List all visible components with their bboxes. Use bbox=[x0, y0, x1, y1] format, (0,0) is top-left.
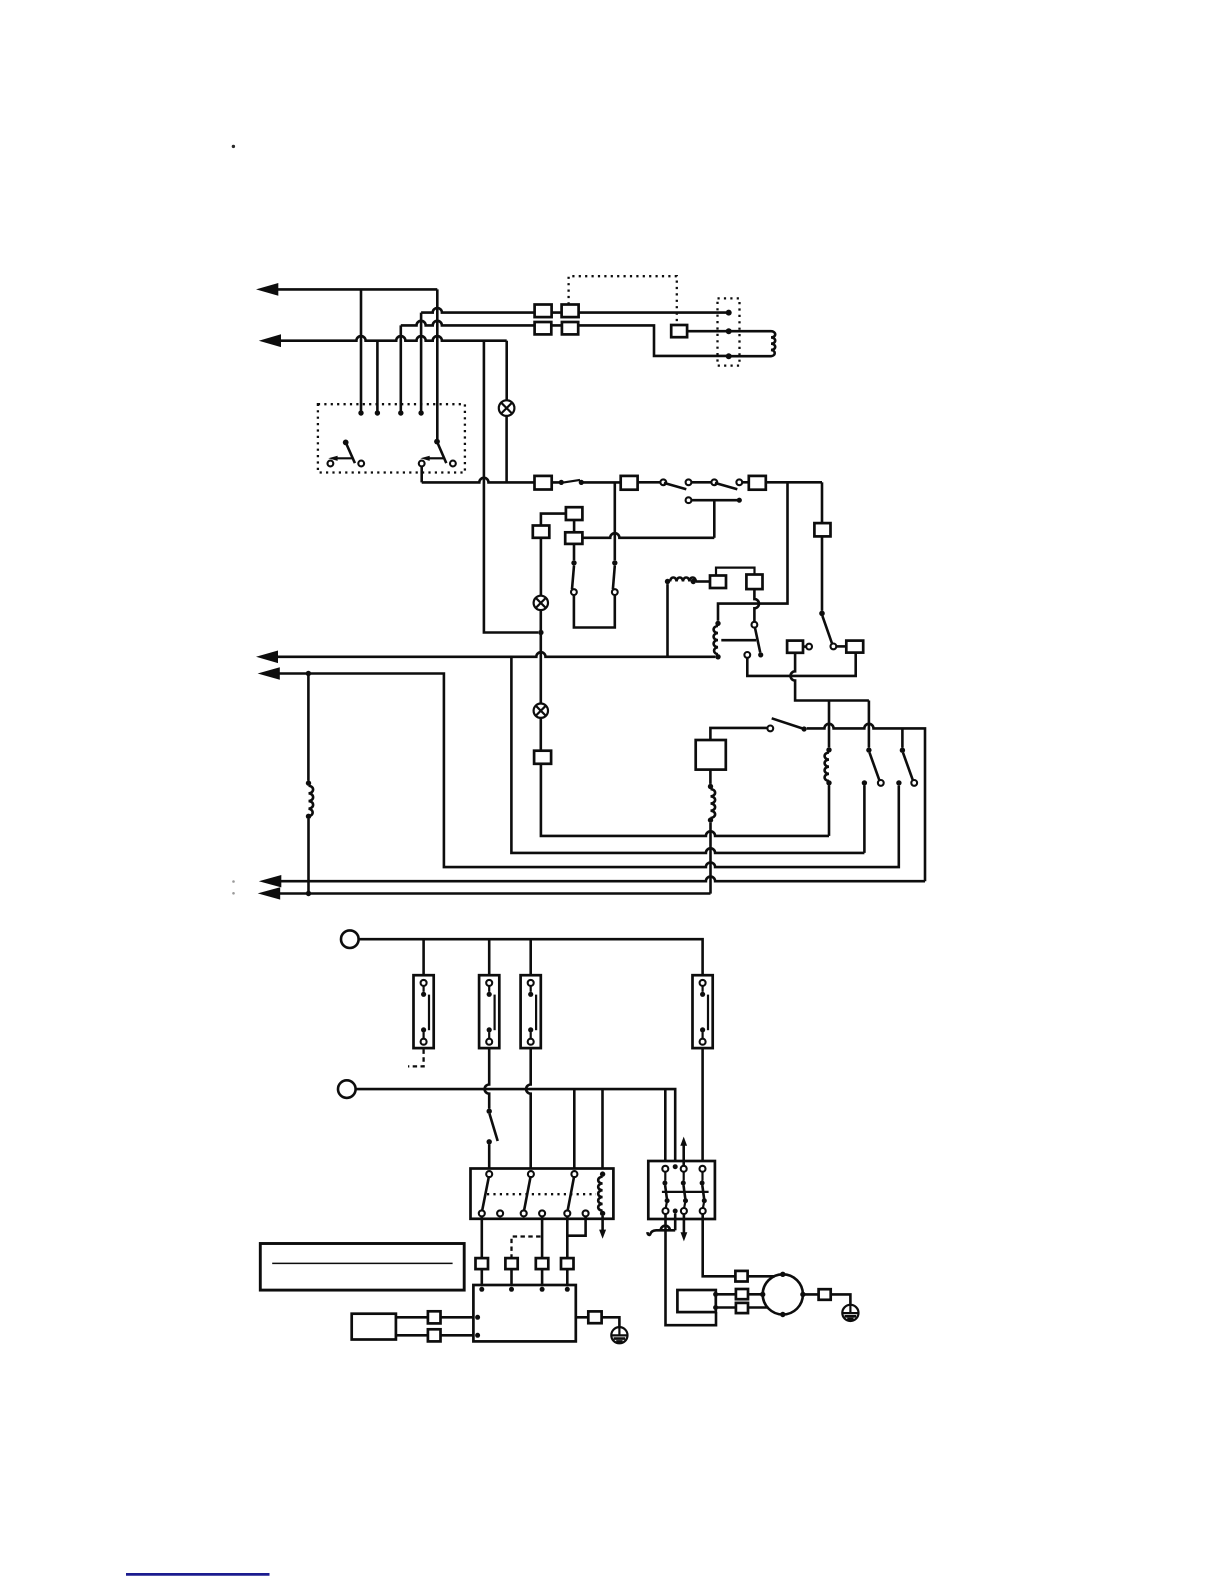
triac/transformer primary coil L3 bbox=[825, 701, 832, 836]
wire: CN-B pole2 stub down to pigtail bbox=[674, 1214, 677, 1231]
relay coil L1 bbox=[714, 621, 721, 660]
relay contact RY1 (open) bbox=[638, 479, 692, 489]
relay contact K2 (gate row, open) bbox=[900, 728, 917, 785]
dashed mechanical link below LB1 bbox=[408, 1050, 424, 1067]
node: CN-A pin 2 bbox=[726, 328, 732, 334]
wire: T1 branch to latch box LB2 bbox=[488, 939, 491, 980]
wire: CN-B pole4 down to motor top lead bbox=[703, 1214, 736, 1276]
turntable motor M3 (circle) bbox=[760, 1272, 806, 1318]
wire: contact to SQ4 bbox=[836, 645, 846, 648]
node: interlock terminal 2 bbox=[375, 410, 380, 415]
AC input terminal T1 (circle) bbox=[341, 930, 359, 948]
wire: T2 branch riser to RL1 contact 3 bbox=[573, 1089, 576, 1171]
wire + terminal square SD (motor right to ground) bbox=[803, 1289, 851, 1305]
page connector arrow A1 (to power unit, line 1) bbox=[256, 283, 437, 296]
component block B0 (resistor) bbox=[533, 526, 550, 538]
auxiliary contact row (RY2 parallel contact) bbox=[686, 497, 742, 537]
wire: branch from line1 to interlock terminal 1 bbox=[360, 289, 363, 410]
thermal cut-out TC1 bbox=[671, 325, 687, 337]
wire: T2 branch riser to RL1 coil bbox=[601, 1089, 604, 1171]
relay block S-left (coil terminal box) bbox=[710, 576, 726, 589]
RL1 spare contacts bbox=[497, 1210, 503, 1216]
mechanical bracket link over S blocks bbox=[716, 568, 755, 576]
junction: arrow4 line / stirrer coil branch bbox=[306, 671, 311, 676]
wire + terminal square SB (capacitor to motor lower-left) bbox=[716, 1303, 768, 1313]
wire: SQ5 down to triac row (vertical hops tie line) bbox=[791, 653, 869, 701]
AC input terminal T2 (circle) bbox=[338, 1080, 356, 1098]
wire: monitor line to interlock terminal 3 bbox=[399, 325, 402, 410]
wire: line row y=312.6 through C1/C2 to connector pin 1 bbox=[421, 308, 726, 313]
wire: line1 vertical drop to interlock switch SW2 common bbox=[436, 289, 439, 439]
wire + terminal square F (lower filament lead) bbox=[396, 1329, 474, 1341]
node: interlock terminal 3 bbox=[398, 410, 403, 415]
wire: branch from line2(arrow) to interlock terminal 2 bbox=[376, 341, 379, 411]
fuse F1 bbox=[535, 476, 552, 490]
terminal square SC (motor top lead) bbox=[735, 1271, 747, 1282]
node: winding tap b bbox=[896, 780, 901, 785]
noise filter capacitor C2 bbox=[562, 305, 579, 318]
wire below LB3 to relay RL1 (hops T2 line) bbox=[526, 1048, 531, 1171]
wire: main row T-drop to relay coil L1 (corner path) bbox=[718, 482, 788, 620]
door interlock switch assembly (dotted box) bbox=[318, 404, 465, 472]
interlock switch SW2 (changeover, arrow shows travel) bbox=[419, 439, 456, 467]
RL1 contact 3 bbox=[564, 1171, 577, 1216]
wire: bus5 shaft (arrow A6 line) bbox=[258, 887, 711, 899]
wire: SC to motor bbox=[748, 1275, 775, 1278]
fan motor winding FM (coil) bbox=[729, 331, 776, 356]
cook lamp OL2 (circle with X) bbox=[534, 538, 548, 704]
terminal block SQ5 bbox=[787, 641, 803, 653]
latch switch LB1 (latch switch box) bbox=[414, 975, 434, 1048]
relay contact under S-right (hops tie line) bbox=[744, 589, 763, 658]
relay contact K1 (triac row, open) bbox=[866, 701, 883, 786]
relay contact pair loop below B2 bbox=[571, 482, 618, 627]
wire: monitor line to interlock terminal 4 bbox=[420, 313, 423, 411]
CN-B pole 2 (pass-through pins) bbox=[673, 1164, 678, 1213]
noise filter capacitor C1 bbox=[535, 305, 552, 318]
component block B2 (timer motor) bbox=[565, 532, 582, 544]
wire + terminal square FA (upper filament lead) bbox=[396, 1311, 474, 1323]
fuse F2 bbox=[621, 476, 638, 490]
gate switch SW4 (open blade) and gate line bbox=[772, 718, 925, 881]
node: CN-A pin 3 bbox=[726, 353, 732, 359]
latch switch LB3 (latch switch box) bbox=[521, 975, 541, 1048]
wire: CN-B pole1 loop to H.V. capacitor bottom bbox=[666, 1214, 717, 1325]
stirrer motor winding M1 (coil) bbox=[306, 674, 313, 897]
wire: RL1 contact1 to fuse S1 to power unit bbox=[480, 1216, 483, 1288]
CN-B pole 4 bbox=[700, 1166, 707, 1214]
terminal block SQ4 bbox=[846, 641, 863, 653]
wire + terminal square to chassis ground GND1 bbox=[576, 1311, 620, 1327]
CN-B pole 3 bbox=[681, 1166, 688, 1214]
wire below LB4 to connector CN-B bbox=[701, 1048, 704, 1166]
component block B1 (timer contact) bbox=[566, 507, 583, 520]
page connector arrow A4 (line 4) bbox=[258, 667, 899, 867]
page connector arrow A2 (line 2) bbox=[259, 334, 507, 347]
noise filter capacitor C4 bbox=[562, 322, 578, 334]
wire: coil L2 left end down to arrow3 line bbox=[666, 584, 669, 655]
wire: SQ5 to NC contact circle bbox=[803, 645, 806, 648]
wire: main row y=482.4 left part (hops over monitor drop) bbox=[422, 478, 535, 483]
H.V. capacitor (box) bbox=[677, 1290, 718, 1312]
RL1 coil bbox=[598, 1171, 605, 1216]
wire: T2 line across to CN-B corner bbox=[356, 1089, 676, 1164]
page connector arrow A3 (line 3) bbox=[256, 651, 715, 664]
component block B3 (thermistor) bbox=[534, 751, 551, 764]
power relay RL1 (box) bbox=[471, 1169, 614, 1219]
blue footer rule bbox=[126, 1573, 270, 1576]
connector CN-B (box) bbox=[648, 1161, 715, 1219]
wire: tie line from arrow-2 branch down to lamp chain junction bbox=[484, 341, 538, 633]
select switch SW3 with series block bbox=[814, 482, 832, 644]
indicator lamp OL3 (circle with X) bbox=[534, 704, 548, 751]
note/label box (blank) bbox=[260, 1244, 464, 1291]
wire: T1 branch to latch box LB3 bbox=[529, 939, 532, 980]
dashed link + terminal square S2 to power unit bbox=[505, 1237, 540, 1289]
wire: T1 line to relay box column 4 bbox=[359, 939, 703, 980]
wire: tap a riser to bus2 bbox=[863, 786, 866, 853]
power unit PWB (box) bbox=[473, 1285, 575, 1341]
stray dot (scan artifact, top-left) bbox=[232, 145, 235, 148]
wire: contact to square4 loop (via bottom) bbox=[747, 653, 855, 676]
ground symbol GND2 bbox=[842, 1305, 858, 1321]
dashed mechanical/thermal link (C2 top to TC1 top) bbox=[569, 276, 677, 325]
gang bar across CN-B poles bbox=[662, 1191, 709, 1193]
terminal square S1 bbox=[476, 1258, 489, 1269]
thermal cut-out switch TS1 (closed) bbox=[552, 480, 621, 485]
wire: relay coil tap to contact blade bbox=[721, 639, 756, 642]
wire + terminal square SA (capacitor to motor left) bbox=[716, 1289, 763, 1299]
wire: bus2 (arrow3 branch to tap a) bbox=[511, 657, 864, 853]
junction: lamp chain / cross tie bbox=[538, 630, 543, 635]
RL1 contact 2 bbox=[521, 1171, 534, 1216]
relay contact RY2 (open) bbox=[691, 479, 748, 489]
node: NC contact of power select switch bbox=[806, 644, 812, 650]
magnetron box MG bbox=[352, 1314, 396, 1340]
latch switch LB4 (latch switch box) bbox=[693, 975, 713, 1048]
relay coil L2 (horizontal, power relay) bbox=[665, 578, 710, 585]
relay block S-right (contact terminal box) bbox=[746, 575, 762, 590]
wire: B1 left to corner bbox=[541, 514, 566, 526]
faint tick marks left of arrows A5/A6 bbox=[232, 880, 235, 883]
latch switch LB2 (latch switch box) bbox=[479, 975, 499, 1048]
noise filter capacitor C3 bbox=[535, 322, 552, 334]
oven motor M2 (square body) bbox=[696, 740, 726, 770]
wire: RL1 spare mid contact via square S3 bbox=[536, 1216, 549, 1288]
wire: main row right of F3 to corner bbox=[766, 481, 822, 484]
arrow: CN-B pole3 to control (up) bbox=[680, 1137, 687, 1166]
pigtail lead with curl (hops pole1 wire) bbox=[647, 1226, 675, 1235]
ground symbol GND1 bbox=[611, 1327, 627, 1343]
wire: bus1 (lamp chain to L3 coil) bbox=[541, 764, 829, 836]
interlock switch SW1 (changeover, arrow shows travel) bbox=[328, 440, 365, 467]
node: interlock terminal 1 bbox=[358, 410, 363, 415]
oven lamp OL1 (circle with X) bbox=[499, 341, 515, 483]
connector CN-A (dotted box, fan motor plug) bbox=[718, 298, 740, 365]
dotted gang link inside RL1 bbox=[487, 1193, 596, 1195]
wire: line row y=325.4 through C3/C4, jog down to connector pin 3 bbox=[401, 321, 726, 356]
node: interlock terminal 4 bbox=[418, 410, 423, 415]
CN-B pole 1 bbox=[662, 1166, 669, 1214]
oven motor M2 winding (coil) bbox=[708, 770, 715, 894]
oven motor M2 (square) top feed to gate contact bbox=[710, 726, 773, 741]
wire: SW2 NC contact down to main row bbox=[420, 466, 423, 482]
wire: RL1 contacts 5+6 joined via square S4 bbox=[561, 1216, 586, 1288]
wire: TC1 to connector pin 2 bbox=[687, 330, 726, 333]
arrow: RL1 coil lead to control (down) bbox=[599, 1216, 606, 1239]
fuse F3 bbox=[749, 476, 766, 490]
arrow: CN-B pole3 lower lead (down) bbox=[681, 1214, 688, 1241]
wire + open switch below LB2 (hops T2 line) bbox=[485, 1048, 498, 1171]
wire: aux row down/left to relay coil block B2 (hops loop riser) bbox=[582, 533, 714, 538]
node: CN-A pin 1 bbox=[726, 310, 732, 316]
wire: T1 branch to latch box LB1 bbox=[422, 939, 425, 980]
wire: bus4 shaft (arrow A5 line) bbox=[259, 875, 925, 887]
node: NO contact circle left of SQ4 bbox=[831, 644, 837, 650]
node: winding tap a bbox=[862, 780, 867, 785]
RL1 contact 1 bbox=[479, 1171, 492, 1216]
link B1-B2 bbox=[573, 520, 576, 532]
wire: T2 branch riser to CN-B pin 1 bbox=[664, 1089, 667, 1166]
